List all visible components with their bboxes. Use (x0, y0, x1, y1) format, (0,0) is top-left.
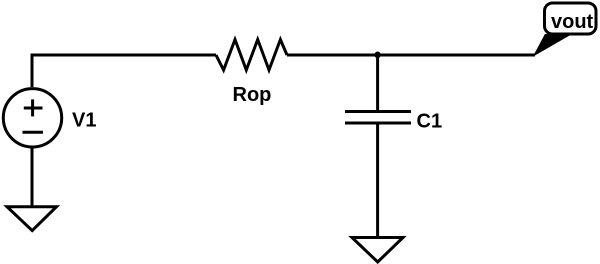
node vout callout box (545, 3, 597, 34)
wire from node down to capacitor top plate (376, 55, 379, 112)
wire from V1 bottom to ground (31, 147, 34, 207)
label Rop (233, 84, 272, 106)
label C1 (417, 111, 443, 133)
svg-text:Rop: Rop (233, 84, 272, 106)
node vout callout pointer (534, 35, 570, 56)
wire from resistor right to vout tap (287, 54, 535, 57)
svg-text:vout: vout (551, 11, 594, 33)
ground under V1 (7, 207, 57, 231)
ground under capacitor (352, 238, 403, 263)
resistor Rop (216, 40, 287, 71)
label V1 (72, 110, 96, 132)
wire from capacitor bottom plate to ground (376, 123, 379, 238)
svg-text:C1: C1 (417, 111, 443, 133)
wire from V1 top to resistor left (32, 55, 216, 87)
capacitor C1 (345, 112, 411, 124)
svg-text:V1: V1 (72, 110, 96, 132)
node junction dot (374, 52, 381, 59)
voltage source V1 (3, 89, 61, 147)
